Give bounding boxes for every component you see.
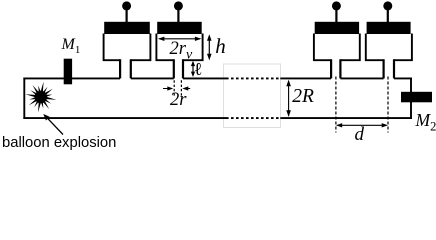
valve V4 ball: [383, 1, 392, 10]
wire: tube top wall solid segments: [23, 77, 412, 79]
dimension d dashed guides: [336, 77, 388, 133]
balloon explosion pointer arrow: [48, 119, 63, 135]
wire: tube left wall: [23, 78, 25, 120]
label l: [194, 59, 203, 80]
valve V3 cap: [315, 22, 359, 34]
valve V4 cap: [367, 22, 411, 34]
valve V1 stem: [125, 9, 127, 22]
valve V2 ball: [174, 1, 183, 10]
valve V2 stem: [177, 9, 179, 22]
valve V1 body: [104, 34, 151, 61]
microphone M1: [64, 59, 72, 85]
valve V1 ball: [122, 1, 131, 10]
dimension d arrow: [338, 124, 387, 126]
dimension l arrow (neck height): [192, 62, 194, 76]
faint break box: [224, 64, 281, 128]
dimension h arrow: [208, 36, 210, 58]
valve V1 neck walls: [120, 59, 131, 78]
valve V4 body: [366, 34, 412, 61]
label balloon explosion: [2, 135, 116, 151]
valve V3 neck walls: [331, 59, 340, 78]
label 2R: [292, 86, 314, 108]
dimension 2r_v arrow: [160, 38, 200, 40]
microphone M2: [401, 92, 432, 103]
valve V2 body: [156, 34, 202, 61]
balloon explosion starburst: [25, 82, 56, 113]
valve V2 cap: [157, 22, 202, 34]
label d: [355, 124, 365, 146]
label h: [215, 34, 226, 59]
wire: tube top wall dotted break: [226, 77, 280, 79]
wire: tube right wall: [410, 78, 412, 120]
valve V3 body: [314, 34, 360, 61]
label 2r: [170, 90, 186, 111]
dimension 2R arrow: [288, 82, 290, 116]
label 2r_v: [170, 39, 193, 64]
valve V4 neck walls: [384, 59, 394, 78]
valve V2 neck walls: [174, 59, 183, 78]
dimension 2r arrows: [163, 88, 190, 90]
label M1: [62, 36, 81, 56]
wire: tube bottom wall: [23, 117, 226, 119]
dimension 2r dashed guides: [174, 80, 181, 96]
valve V1 cap: [104, 22, 150, 34]
label M2: [416, 110, 436, 135]
valve V4 stem: [387, 9, 389, 22]
valve V3 stem: [335, 9, 337, 22]
valve V3 ball: [332, 1, 341, 10]
